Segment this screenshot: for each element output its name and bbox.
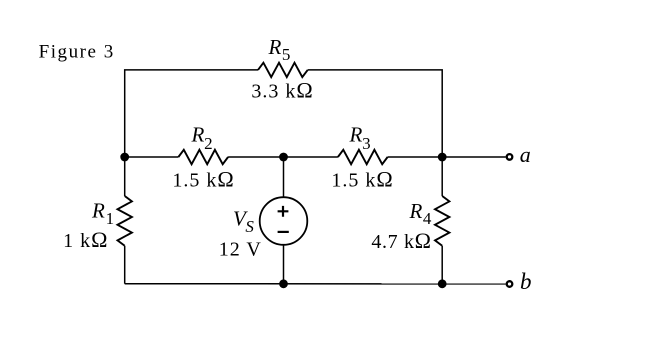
resistor R5 xyxy=(258,63,308,77)
svg-text:Figure 3: Figure 3 xyxy=(39,42,115,63)
svg-text:R2: R2 xyxy=(191,122,213,153)
svg-text:R5: R5 xyxy=(268,35,291,64)
wire right: middle junction down to R4 xyxy=(441,157,443,196)
svg-text:1.5 kΩ: 1.5 kΩ xyxy=(331,167,393,192)
resistor R1 xyxy=(118,196,132,246)
svg-text:R1: R1 xyxy=(91,198,114,228)
svg-text:1 kΩ: 1 kΩ xyxy=(63,227,108,252)
svg-text:VS: VS xyxy=(233,206,254,236)
wire source bottom lead xyxy=(283,245,285,284)
svg-text:a: a xyxy=(520,142,531,167)
plus sign xyxy=(278,206,289,217)
terminal a circle xyxy=(507,154,513,160)
voltage source VS xyxy=(260,197,308,245)
terminal b circle xyxy=(507,281,513,287)
svg-text:b: b xyxy=(520,269,532,294)
wire top: R5 to right corner xyxy=(308,70,443,157)
svg-text:R4: R4 xyxy=(409,199,432,228)
wire middle: left junction to R2 xyxy=(125,156,179,158)
node: center-middle junction xyxy=(279,153,288,162)
svg-text:12 V: 12 V xyxy=(219,239,262,261)
wire top: left corner to R5 xyxy=(125,70,258,157)
resistor R4 xyxy=(435,196,449,246)
wire left: middle junction down to R1 xyxy=(124,157,126,196)
wire source top lead xyxy=(283,157,285,197)
node: right-middle junction xyxy=(438,153,447,162)
svg-text:1.5 kΩ: 1.5 kΩ xyxy=(172,167,234,192)
svg-text:3.3 kΩ: 3.3 kΩ xyxy=(251,78,313,103)
node: bottom-right junction xyxy=(438,279,447,288)
wire right: R4 down to bottom wire xyxy=(441,246,443,284)
minus sign xyxy=(278,231,289,233)
svg-text:4.7 kΩ: 4.7 kΩ xyxy=(371,228,431,253)
wire bottom xyxy=(125,283,506,285)
node: bottom-center junction xyxy=(279,279,288,288)
wire left: R1 down to bottom wire xyxy=(124,246,126,284)
node: left-middle junction xyxy=(120,153,129,162)
svg-text:R3: R3 xyxy=(349,122,371,153)
resistor R2 xyxy=(178,150,228,164)
wire middle: R3 to terminal a xyxy=(388,156,506,158)
resistor R3 xyxy=(338,150,388,164)
wire middle: R2 to R3 xyxy=(228,156,338,158)
